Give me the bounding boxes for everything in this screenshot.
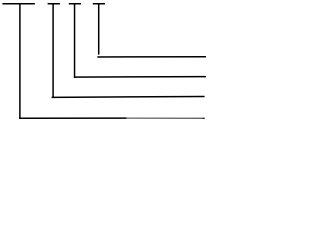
- wire horizontal run of branch 4: [97, 56, 206, 58]
- wire bottom run of branch 1 (dark right tip): [203, 117, 205, 119]
- wire horizontal run of branch 3: [74, 76, 206, 79]
- wire stem of branch 2: [52, 3, 54, 98]
- wire bottom run of branch 1 (faded gray part): [126, 117, 203, 119]
- wire top bar of branch 4: [93, 3, 105, 5]
- wire bottom run of branch 1 (dark part): [19, 117, 127, 119]
- wire top bar of branch 3: [69, 3, 81, 5]
- wire stem of branch 3: [74, 3, 76, 78]
- wire stem of branch 1: [19, 3, 21, 119]
- wire top bar of branch 1: [2, 3, 35, 5]
- wire top bar of branch 2: [48, 3, 60, 5]
- wire horizontal run of branch 2: [52, 95, 205, 98]
- wire stem of branch 4: [98, 3, 100, 54]
